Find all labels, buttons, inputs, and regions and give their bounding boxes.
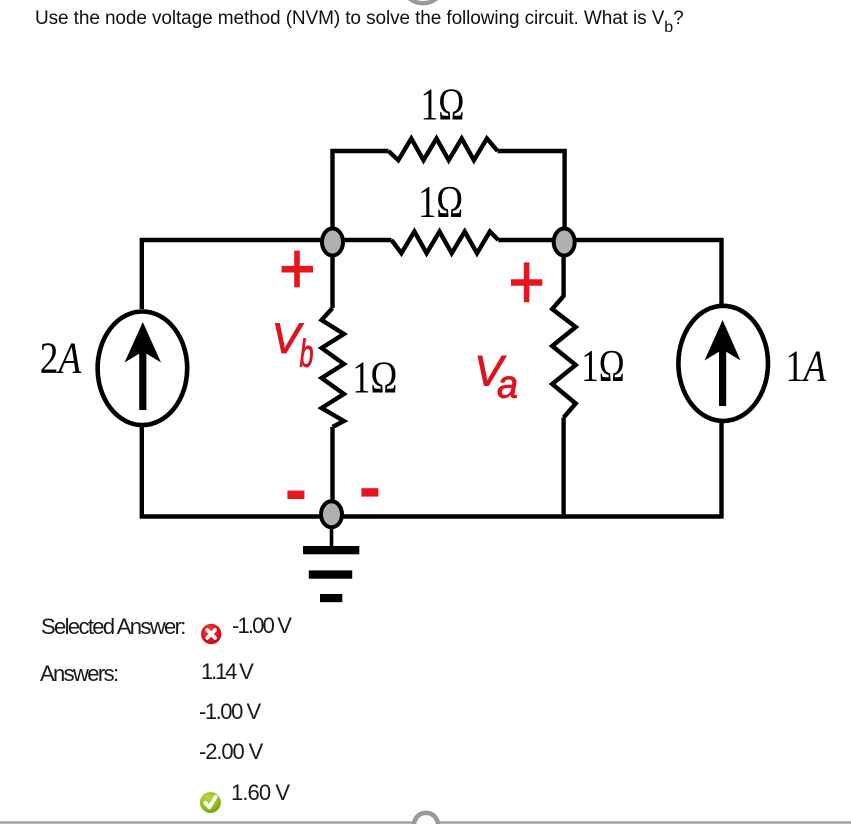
bottom page divider line xyxy=(0,821,851,824)
wire rail right of R2 xyxy=(498,238,723,242)
wire right vertical upper xyxy=(719,238,723,305)
plus sign Va xyxy=(511,262,542,302)
wire Va branch upper stub xyxy=(561,242,565,297)
wire left vertical lower xyxy=(140,426,144,519)
answer 1 xyxy=(201,661,252,683)
ground bar 3 xyxy=(320,594,342,602)
wire bottom rail xyxy=(140,514,723,518)
resistor R3 1ohm Vb branch xyxy=(322,308,344,427)
question title xyxy=(35,9,684,36)
svg-text:b: b xyxy=(300,333,314,376)
answer 2 xyxy=(199,701,260,723)
resistor R2 1ohm middle xyxy=(392,232,499,254)
wire Vb branch upper stub xyxy=(330,240,334,308)
svg-text:1Ω: 1Ω xyxy=(418,177,463,227)
ground bar 1 xyxy=(303,546,359,554)
svg-text:a: a xyxy=(497,364,518,407)
correct icon green check xyxy=(200,792,221,813)
answer 4 xyxy=(231,782,289,804)
wire rail left of R2 xyxy=(140,238,392,242)
node ground junction xyxy=(321,501,342,527)
resistor R4 1ohm Va branch xyxy=(552,296,576,418)
current source I1 arrow xyxy=(125,322,161,410)
wire Va branch lower stub xyxy=(561,418,565,519)
wire top loop left xyxy=(333,151,389,242)
ground stub wire xyxy=(330,527,334,547)
answer 3 xyxy=(199,741,262,763)
wire right vertical lower xyxy=(719,422,723,519)
bottom page ring xyxy=(414,813,438,824)
selected answer label xyxy=(41,616,185,638)
incorrect icon red X xyxy=(201,624,221,644)
ground bar 2 xyxy=(309,570,352,578)
svg-text:2A: 2A xyxy=(40,334,82,383)
svg-text:1Ω: 1Ω xyxy=(421,79,465,129)
svg-text:1Ω: 1Ω xyxy=(581,341,624,391)
answers label xyxy=(40,663,117,685)
minus sign Va xyxy=(361,488,378,496)
wire left vertical upper xyxy=(140,238,144,309)
top page ring xyxy=(401,0,444,3)
selected answer value xyxy=(232,615,290,637)
wire top loop right xyxy=(498,151,565,242)
plus sign Vb xyxy=(282,251,313,288)
current source I2 1A circle xyxy=(678,306,768,421)
current source I2 arrow xyxy=(705,320,741,406)
node B top-left junction xyxy=(322,229,343,256)
wire Vb branch lower stub xyxy=(330,427,334,505)
svg-text:1Ω: 1Ω xyxy=(352,353,397,403)
node A top-right junction xyxy=(554,229,575,256)
minus sign Vb xyxy=(287,491,304,499)
svg-text:1A: 1A xyxy=(786,342,828,391)
current source I1 2A circle xyxy=(98,312,188,426)
resistor R1 1ohm top xyxy=(388,139,497,161)
